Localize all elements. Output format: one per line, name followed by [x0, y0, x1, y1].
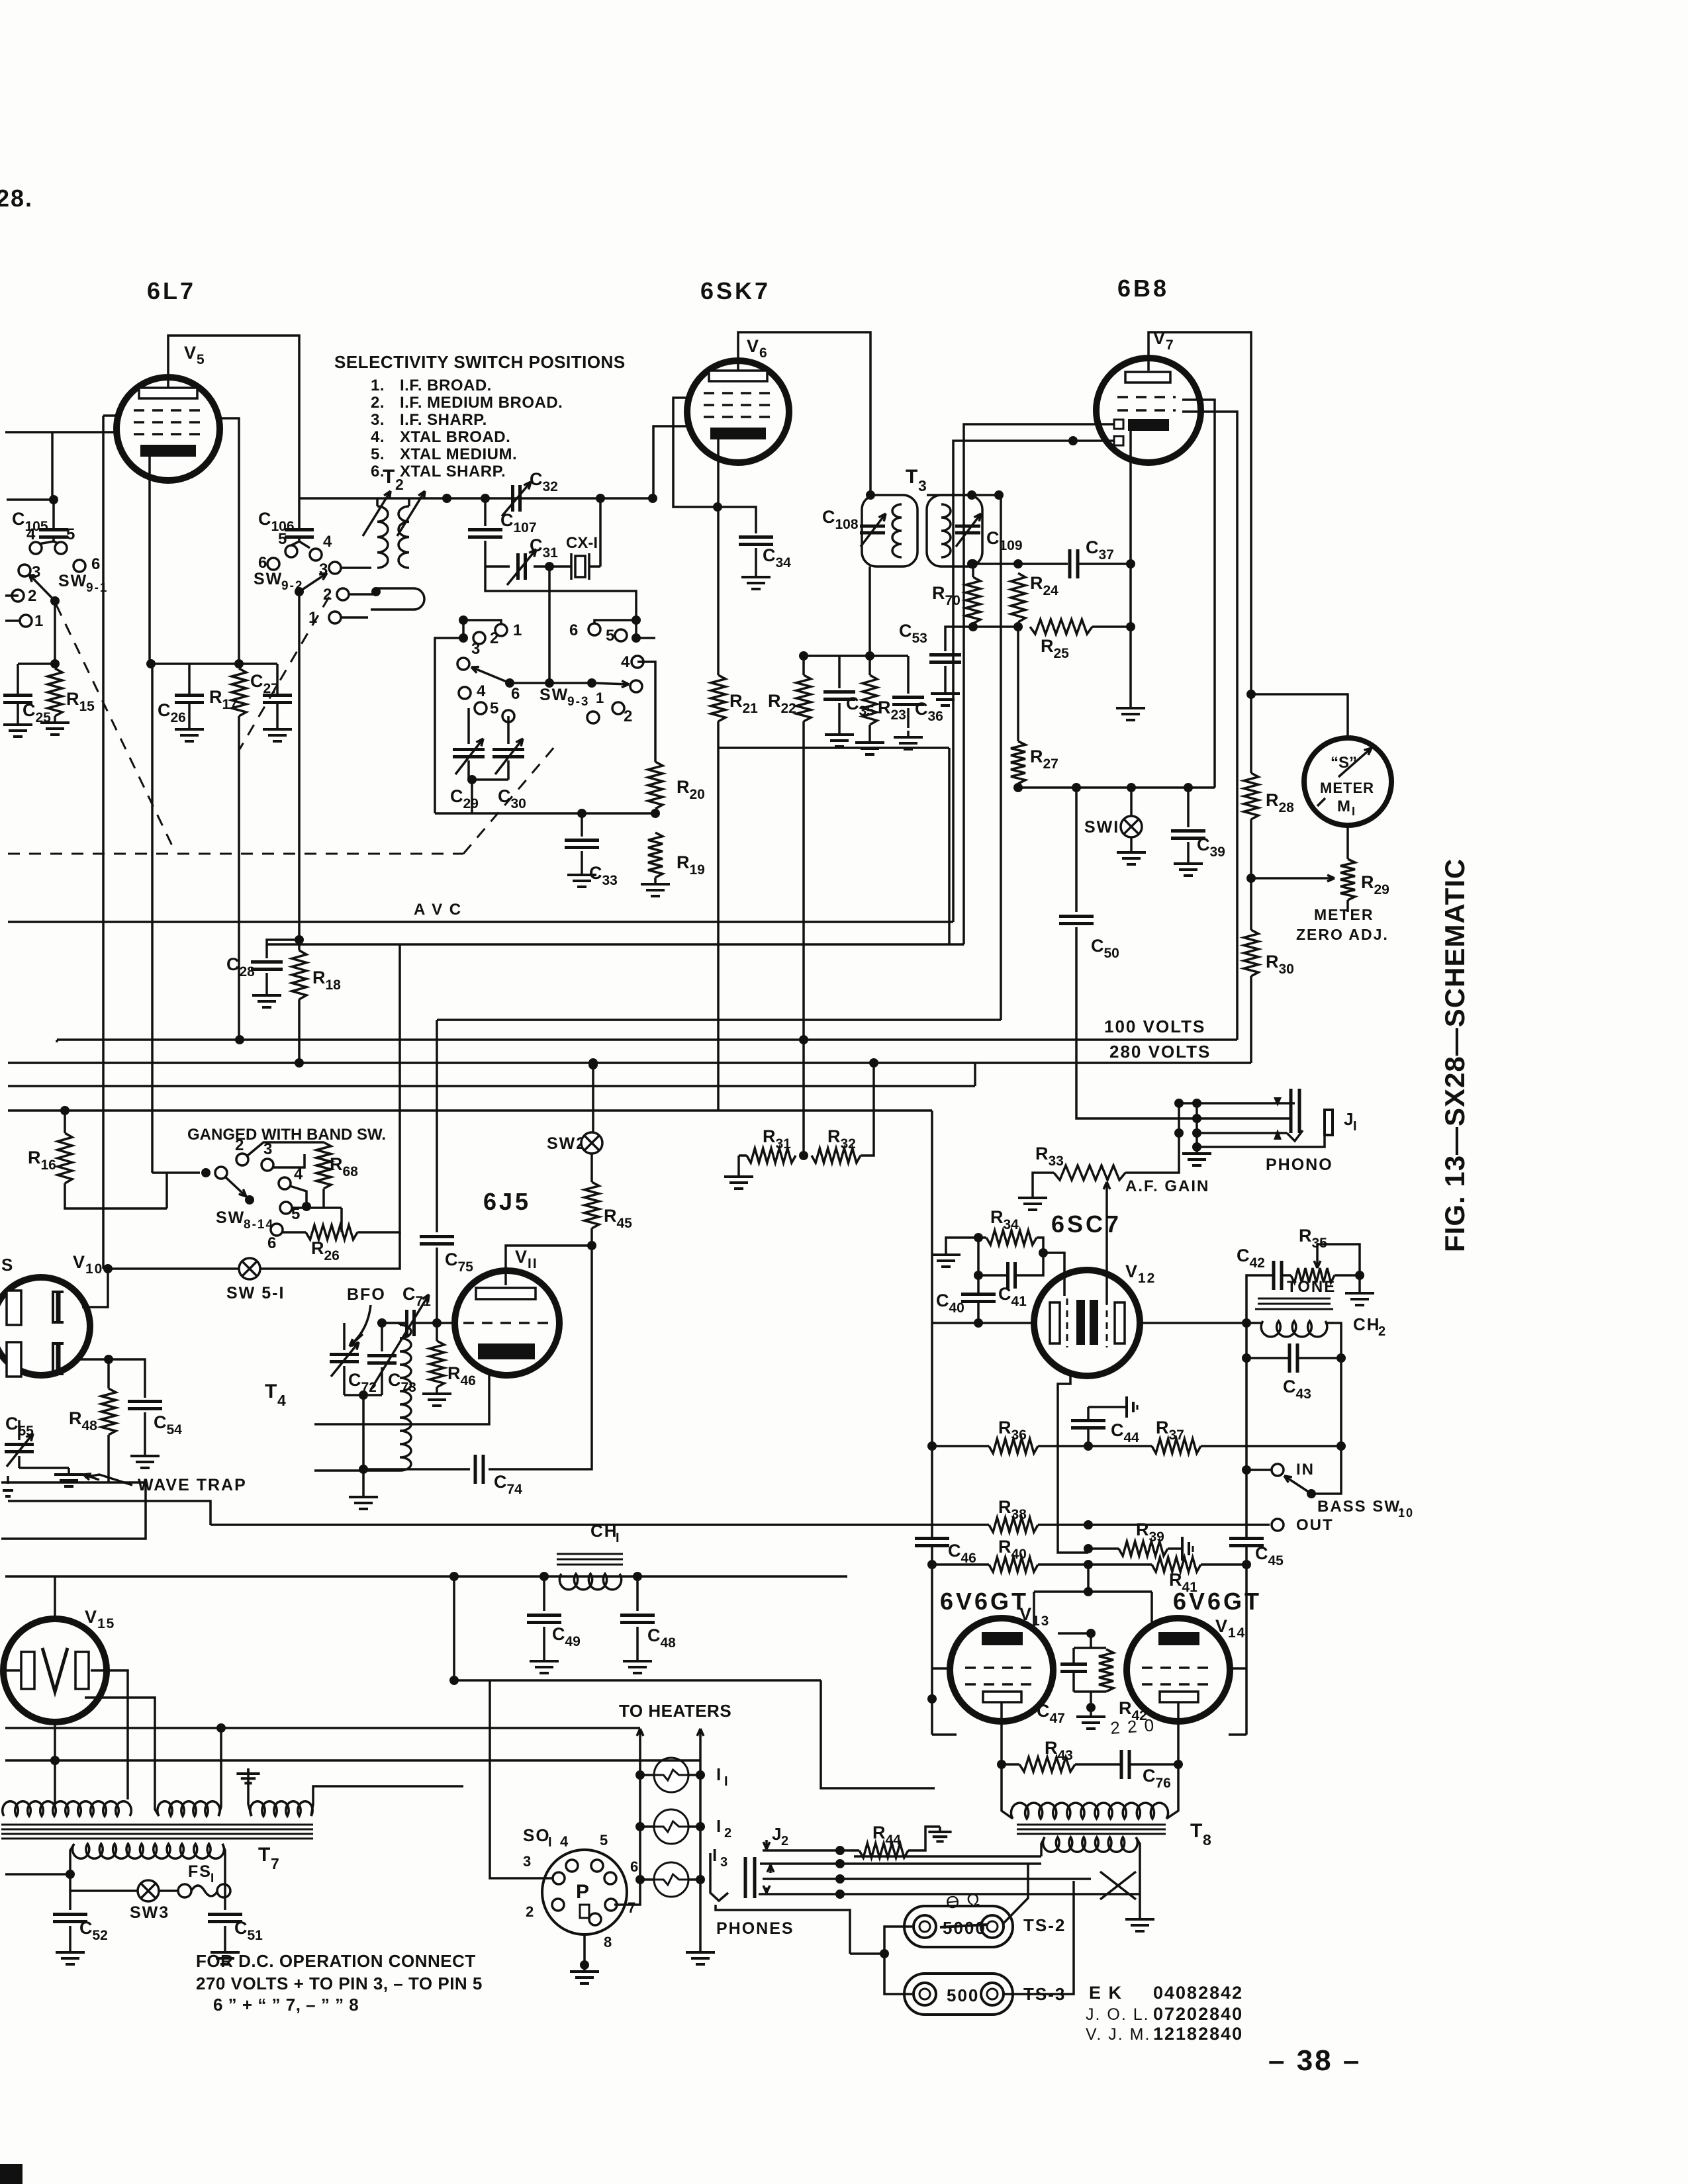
- svg-text:T: T: [383, 466, 396, 488]
- svg-text:20: 20: [689, 787, 704, 802]
- svg-text:BFO: BFO: [347, 1285, 386, 1304]
- svg-text:15: 15: [97, 1616, 115, 1631]
- contact arrow 2: [1274, 1129, 1282, 1140]
- svg-text:R: R: [1361, 872, 1376, 892]
- wire V13 screen left: [932, 1667, 951, 1670]
- resistor R46: [430, 1341, 444, 1387]
- svg-text:R: R: [447, 1363, 462, 1383]
- svg-text:109: 109: [999, 538, 1022, 553]
- svg-text:OUT: OUT: [1296, 1516, 1334, 1534]
- svg-text:C: C: [948, 1541, 962, 1561]
- svg-text:A V C: A V C: [414, 901, 462, 919]
- svg-text:R: R: [932, 583, 947, 603]
- wire V5 plate to C106 bus: [168, 336, 299, 498]
- wire T3 secondary top: [927, 494, 1001, 496]
- wire left vertical feeds: [56, 1040, 58, 1042]
- wire J2 line 2: [760, 1862, 1041, 1865]
- wire J2 line 1: [763, 1849, 840, 1852]
- svg-text:74: 74: [506, 1482, 522, 1497]
- socket SO1: [542, 1850, 627, 1934]
- svg-text:10: 10: [85, 1261, 103, 1277]
- variable capacitor C29: [467, 708, 470, 744]
- svg-text:V: V: [515, 1247, 528, 1267]
- tube V7 envelope: [1096, 358, 1201, 463]
- svg-text:33: 33: [1048, 1154, 1063, 1169]
- svg-text:500: 500: [947, 1985, 979, 2005]
- svg-text:9-3: 9-3: [567, 695, 589, 709]
- svg-text:C: C: [1237, 1246, 1251, 1265]
- svg-text:45: 45: [1268, 1553, 1284, 1569]
- wire bus 4: [8, 1085, 975, 1087]
- svg-text:METER: METER: [1314, 906, 1374, 923]
- resistor R15: [48, 668, 62, 716]
- tube V15 envelope: [3, 1619, 107, 1722]
- svg-text:SO: SO: [523, 1825, 551, 1845]
- svg-text:C: C: [1283, 1377, 1297, 1396]
- wire T2 tops to main line: [376, 498, 379, 506]
- svg-text:PHONES: PHONES: [716, 1919, 794, 1938]
- svg-text:8: 8: [604, 1934, 613, 1950]
- tube V6 envelope: [687, 361, 789, 463]
- resistor R23: [863, 675, 877, 725]
- svg-text:R: R: [1041, 636, 1055, 656]
- svg-text:3: 3: [720, 1855, 729, 1870]
- svg-text:R: R: [66, 689, 81, 709]
- svg-text:R: R: [998, 1418, 1013, 1437]
- svg-text:R: R: [312, 968, 327, 987]
- svg-text:R: R: [827, 1126, 842, 1146]
- svg-text:3: 3: [918, 477, 928, 494]
- wire SW9-2 pin1 stub: [341, 616, 368, 619]
- svg-text:C: C: [250, 671, 265, 691]
- wire contact2 to R68: [248, 1142, 324, 1156]
- svg-text:6: 6: [511, 685, 521, 703]
- wire SW9-2 pin2 to link: [349, 593, 376, 596]
- jack J2 body: [744, 1857, 747, 1898]
- ground phono: [1196, 1147, 1198, 1154]
- capacitor C28: [267, 940, 299, 958]
- svg-text:I: I: [724, 1774, 729, 1789]
- wire contact3 to R68 bottom: [273, 1154, 305, 1167]
- phono junction block: [1174, 1099, 1184, 1108]
- svg-text:I: I: [716, 1816, 722, 1836]
- wire R38 left end: [8, 1501, 211, 1525]
- svg-text:17: 17: [222, 697, 237, 712]
- node C37 right: [1126, 559, 1135, 569]
- lamp SW5-1: [108, 1267, 239, 1270]
- svg-text:5: 5: [197, 352, 206, 367]
- wire C107 bottom to SW9-3: [485, 567, 636, 620]
- wire V5 grid down to V10 branch: [102, 416, 105, 1269]
- svg-text:C: C: [402, 1284, 417, 1304]
- wire heater bus B drop: [821, 1680, 935, 1788]
- ground C54: [144, 1449, 146, 1456]
- svg-text:31: 31: [542, 545, 558, 561]
- wire C55 to ground: [19, 1467, 69, 1469]
- ground C53: [944, 687, 947, 694]
- svg-text:68: 68: [342, 1164, 358, 1179]
- capacitor C33: [581, 813, 583, 837]
- wire C31 CX-1 line: [485, 565, 510, 568]
- svg-text:I: I: [211, 1872, 215, 1886]
- wire TS feeds: [880, 1949, 889, 1958]
- ground T8: [1139, 1913, 1141, 1919]
- wire riser chain: [718, 747, 949, 749]
- switch SW9-2 wiper: [295, 587, 304, 596]
- svg-text:6V6GT: 6V6GT: [940, 1588, 1029, 1615]
- svg-text:22: 22: [780, 701, 796, 716]
- svg-text:PHONO: PHONO: [1266, 1156, 1333, 1174]
- wire C106 chain down: [298, 498, 301, 529]
- svg-text:M: M: [1337, 797, 1352, 815]
- svg-text:100 VOLTS: 100 VOLTS: [1104, 1017, 1205, 1036]
- corner mark: [0, 2164, 23, 2184]
- transformer T8 core: [1017, 1824, 1166, 1826]
- svg-text:TS-2: TS-2: [1023, 1915, 1066, 1935]
- wire grid coupling: [1043, 1253, 1064, 1296]
- node R25 right: [1126, 622, 1135, 631]
- potentiometer R29: [1340, 859, 1355, 900]
- variable capacitor C109: [955, 525, 980, 528]
- svg-text:C: C: [445, 1250, 459, 1269]
- svg-text:2: 2: [526, 1903, 535, 1920]
- wire bias top: [1058, 1632, 1091, 1635]
- switch SW9-1 wiper: [50, 596, 60, 606]
- svg-text:I.F. MEDIUM BROAD.: I.F. MEDIUM BROAD.: [400, 394, 563, 412]
- svg-text:29: 29: [1374, 882, 1389, 897]
- switch SW9-3 left contacts: [459, 615, 468, 625]
- svg-text:6J5: 6J5: [483, 1188, 531, 1215]
- svg-text:ϴ Ω: ϴ Ω: [945, 1889, 982, 1913]
- svg-text:C: C: [79, 1918, 94, 1938]
- wire V14 cathode down: [1177, 1702, 1180, 1764]
- wire R16 bottom: [65, 1183, 167, 1208]
- svg-text:– 38 –: – 38 –: [1268, 2044, 1361, 2077]
- wire V13 cathode down: [1000, 1702, 1003, 1764]
- svg-text:GANGED WITH BAND SW.: GANGED WITH BAND SW.: [187, 1126, 386, 1144]
- capacitor C36: [907, 656, 910, 694]
- svg-text:2: 2: [624, 707, 633, 725]
- svg-text:12182840: 12182840: [1153, 2024, 1243, 2044]
- svg-text:T: T: [906, 466, 919, 488]
- ground C33: [581, 868, 583, 875]
- svg-text:R: R: [1266, 952, 1280, 972]
- svg-text:C: C: [1111, 1420, 1125, 1440]
- svg-text:9-1: 9-1: [86, 581, 108, 595]
- tube V7 diode plates: [1114, 420, 1123, 429]
- wire left edge to SW9-1 pin1: [5, 619, 20, 622]
- wire SW9-1 wiper down: [54, 601, 56, 664]
- wire V6 plate to T3: [738, 332, 870, 495]
- svg-text:SW: SW: [216, 1208, 245, 1227]
- resistor R19: [648, 833, 663, 878]
- ground C27: [276, 723, 279, 729]
- svg-text:I: I: [616, 1531, 621, 1545]
- svg-text:45: 45: [616, 1216, 632, 1231]
- svg-text:T: T: [1190, 1820, 1203, 1842]
- svg-text:43: 43: [1295, 1387, 1311, 1402]
- svg-text:4: 4: [560, 1833, 569, 1850]
- svg-text:R: R: [1266, 790, 1280, 810]
- wire R21 down: [717, 721, 720, 1110]
- svg-text:I: I: [548, 1835, 553, 1850]
- ground C51: [224, 1946, 226, 1952]
- svg-text:33: 33: [602, 873, 617, 888]
- wire V15 plate top: [54, 1576, 56, 1619]
- choke CH1 core: [557, 1553, 623, 1555]
- wire switch assembly bottom: [435, 812, 655, 815]
- svg-text:4: 4: [277, 1392, 287, 1409]
- node C26 wire: [146, 659, 156, 668]
- svg-text:C: C: [500, 510, 515, 530]
- tube V11 envelope: [455, 1271, 559, 1375]
- tube V5 internals: [139, 388, 197, 398]
- svg-text:C: C: [348, 1370, 363, 1390]
- svg-text:39: 39: [1209, 844, 1225, 860]
- svg-text:24: 24: [1043, 583, 1058, 598]
- wire C43 down to R37: [1340, 1358, 1342, 1446]
- svg-text:7: 7: [271, 1855, 281, 1872]
- node R24 bottom: [1013, 622, 1023, 631]
- ground C34: [755, 570, 757, 577]
- resistor R24: [1011, 573, 1025, 622]
- svg-text:4: 4: [26, 525, 36, 543]
- svg-text:1.: 1.: [371, 377, 385, 394]
- ground C36: [907, 731, 910, 737]
- svg-text:2.: 2.: [371, 394, 385, 412]
- svg-text:R: R: [1030, 573, 1045, 593]
- wire T3 top to B+ bus: [1000, 495, 1002, 1020]
- tube V12 internals: [1050, 1302, 1060, 1343]
- svg-text:R: R: [990, 1207, 1005, 1227]
- switch bass in contact: [1242, 1465, 1251, 1475]
- svg-text:V: V: [73, 1252, 86, 1272]
- transformer T2 tuning arrows: [363, 491, 391, 536]
- svg-text:34: 34: [775, 555, 791, 570]
- wire phono line 2: [1197, 1117, 1291, 1120]
- resistor R42: [1099, 1649, 1113, 1692]
- capacitor C39: [1187, 788, 1190, 827]
- pilot lamp I2: [654, 1809, 688, 1844]
- switch SW9-3 wiper arms: [505, 678, 514, 688]
- wire SW9-3 wiper to C31 line: [548, 567, 551, 683]
- svg-text:6L7: 6L7: [147, 277, 196, 304]
- svg-text:SW: SW: [539, 686, 569, 704]
- wire R30 to 280V bus: [1250, 976, 1252, 1063]
- svg-text:5: 5: [490, 700, 500, 717]
- svg-text:2: 2: [323, 586, 333, 604]
- svg-text:2: 2: [490, 629, 500, 647]
- wire heater bus C: [38, 1727, 640, 1729]
- wire C72 C73 to ground rail: [362, 1395, 365, 1469]
- svg-text:21: 21: [742, 701, 758, 716]
- node T3 top: [866, 490, 875, 500]
- wire B+ bus upper: [437, 1019, 1001, 1021]
- svg-text:C: C: [494, 1472, 508, 1492]
- svg-text:15: 15: [79, 699, 95, 714]
- wire left edge to C105: [7, 498, 54, 501]
- ground C25: [17, 718, 19, 725]
- wire V7 plate to B+: [1149, 332, 1251, 694]
- svg-text:2: 2: [724, 1826, 733, 1841]
- svg-text:R: R: [1156, 1418, 1170, 1437]
- wire grids feed: [1087, 1565, 1090, 1592]
- svg-text:C: C: [647, 1625, 662, 1645]
- capacitor C74: [363, 1468, 470, 1471]
- svg-text:R: R: [1299, 1226, 1313, 1246]
- ground R31: [737, 1170, 740, 1177]
- svg-text:R: R: [677, 777, 691, 797]
- svg-text:6: 6: [630, 1858, 639, 1875]
- grid leak ground R39: [1181, 1537, 1184, 1561]
- ganging dashed line horizontal: [8, 853, 463, 855]
- wire phono line 4 to J1: [1197, 1136, 1325, 1147]
- transformer T2 primary: [377, 506, 388, 568]
- svg-text:A.F. GAIN: A.F. GAIN: [1125, 1177, 1209, 1195]
- svg-text:CH: CH: [1353, 1314, 1381, 1334]
- capacitor C35: [838, 656, 841, 688]
- wire heater bus B: [453, 1576, 455, 1680]
- resistor R17: [232, 668, 246, 716]
- svg-text:25: 25: [1053, 646, 1069, 661]
- ground T7 section3: [248, 1787, 252, 1816]
- wire V7 diode 1: [964, 424, 1114, 944]
- tube V13 internals: [982, 1632, 1023, 1645]
- svg-text:4: 4: [323, 533, 333, 551]
- ground C28: [265, 989, 268, 995]
- svg-text:2 2 0: 2 2 0: [1109, 1715, 1156, 1738]
- svg-text:I: I: [1352, 805, 1356, 818]
- wire phono line 3: [1197, 1132, 1287, 1134]
- svg-text:I.F. BROAD.: I.F. BROAD.: [400, 377, 492, 394]
- svg-text:IN: IN: [1296, 1461, 1315, 1479]
- svg-text:C: C: [530, 469, 544, 489]
- svg-text:4: 4: [477, 682, 487, 700]
- ground R19: [654, 878, 657, 884]
- terminal strip TS-3: [904, 1974, 1013, 2015]
- svg-text:46: 46: [460, 1373, 475, 1388]
- wire V10 grid right: [82, 1269, 108, 1307]
- wire R26 to bus riser: [357, 944, 400, 1232]
- svg-text:C: C: [986, 528, 1001, 548]
- jack J1 contacts: [1289, 1089, 1293, 1133]
- wire TS-2 right to T8: [1004, 1864, 1028, 1923]
- svg-text:5: 5: [66, 525, 76, 543]
- wire V7 cathode down: [1129, 431, 1132, 702]
- tube V12 envelope: [1034, 1270, 1140, 1376]
- svg-text:2: 2: [1378, 1324, 1387, 1339]
- svg-text:73: 73: [400, 1380, 416, 1395]
- wire R29 bottom stub: [1346, 900, 1349, 912]
- wire B+ to meter: [1251, 694, 1348, 738]
- wire V5 cathode down: [148, 451, 151, 664]
- ganging dashed line SW9-2: [240, 597, 329, 749]
- ground R35: [1358, 1275, 1361, 1287]
- svg-text:2: 2: [781, 1834, 790, 1848]
- svg-text:28.: 28.: [0, 185, 33, 212]
- ground R46: [436, 1387, 438, 1394]
- wire V6 grid riser: [673, 398, 718, 507]
- svg-text:10: 10: [1398, 1506, 1414, 1520]
- capacitor C27: [276, 664, 279, 694]
- svg-text:V: V: [1125, 1261, 1139, 1281]
- capacitor C51: [224, 1882, 226, 1910]
- resistor R25: [1030, 619, 1092, 634]
- svg-text:XTAL SHARP.: XTAL SHARP.: [400, 463, 506, 480]
- transformer T3 secondary unit: [927, 495, 982, 567]
- tube V11 internals: [476, 1288, 536, 1299]
- resistor R45: [585, 1182, 599, 1228]
- svg-text:6B8: 6B8: [1117, 275, 1169, 302]
- svg-text:270 VOLTS + TO PIN 3, –: 270 VOLTS + TO PIN 3, – TO PIN 5: [196, 1974, 483, 1993]
- svg-text:FOR D.C. OPERATION CONNECT: FOR D.C. OPERATION CONNECT: [196, 1951, 476, 1971]
- svg-text:C: C: [234, 1918, 249, 1938]
- node R31 R32: [799, 1151, 808, 1160]
- ground R33: [1031, 1191, 1034, 1198]
- svg-text:C: C: [450, 786, 465, 806]
- ground C48: [636, 1655, 639, 1661]
- svg-text:J. O. L.: J. O. L.: [1086, 2005, 1150, 2024]
- ground R15: [54, 716, 56, 723]
- svg-text:16: 16: [40, 1158, 56, 1173]
- svg-text:C: C: [226, 954, 241, 974]
- svg-text:27: 27: [263, 681, 278, 696]
- svg-text:TO HEATERS: TO HEATERS: [619, 1701, 731, 1721]
- svg-text:6: 6: [759, 345, 769, 361]
- svg-text:75: 75: [457, 1259, 473, 1275]
- capacitor C48: [636, 1576, 639, 1611]
- bias network joins: [1074, 1647, 1106, 1649]
- wire heater riser left: [639, 1729, 641, 1760]
- switch SW8-14 contacts: [236, 1154, 248, 1165]
- grid leak ground C44: [1088, 1406, 1127, 1408]
- svg-text:14: 14: [1228, 1625, 1246, 1641]
- resistor R27: [1011, 741, 1025, 784]
- svg-text:47: 47: [1049, 1711, 1064, 1726]
- capacitor C52: [69, 1891, 71, 1910]
- svg-text:C: C: [258, 509, 273, 529]
- resistor R16: [58, 1133, 72, 1183]
- wire V15 left pin: [5, 1669, 20, 1672]
- resistor R48: [101, 1388, 116, 1435]
- svg-text:S: S: [1, 1255, 14, 1275]
- svg-text:R: R: [69, 1408, 83, 1428]
- svg-text:48: 48: [660, 1635, 676, 1651]
- wire plate to V11: [506, 1246, 592, 1285]
- ground heater right: [699, 1946, 702, 1952]
- transformer T7 primary section 2: [158, 1801, 220, 1816]
- svg-text:1: 1: [34, 612, 44, 630]
- svg-text:V: V: [184, 343, 197, 363]
- svg-text:C: C: [915, 699, 929, 719]
- enclosure left wire: [435, 638, 463, 813]
- svg-text:51: 51: [247, 1928, 263, 1943]
- svg-text:T: T: [265, 1381, 278, 1402]
- wire J2 sleeve: [716, 1905, 850, 1954]
- svg-text:44: 44: [1123, 1430, 1139, 1445]
- svg-text:C: C: [498, 786, 512, 806]
- resistor R30: [1244, 930, 1258, 976]
- capacitor C73: [381, 1323, 383, 1351]
- svg-text:V: V: [747, 336, 760, 356]
- svg-text:SELECTIVITY SWITCH POSITIONS: SELECTIVITY SWITCH POSITIONS: [334, 352, 626, 372]
- svg-text:6: 6: [91, 555, 101, 573]
- svg-text:R: R: [1030, 747, 1045, 766]
- svg-text:C: C: [12, 509, 26, 529]
- svg-text:5: 5: [278, 530, 288, 548]
- svg-text:37: 37: [1098, 547, 1113, 563]
- svg-text:5: 5: [600, 1832, 609, 1848]
